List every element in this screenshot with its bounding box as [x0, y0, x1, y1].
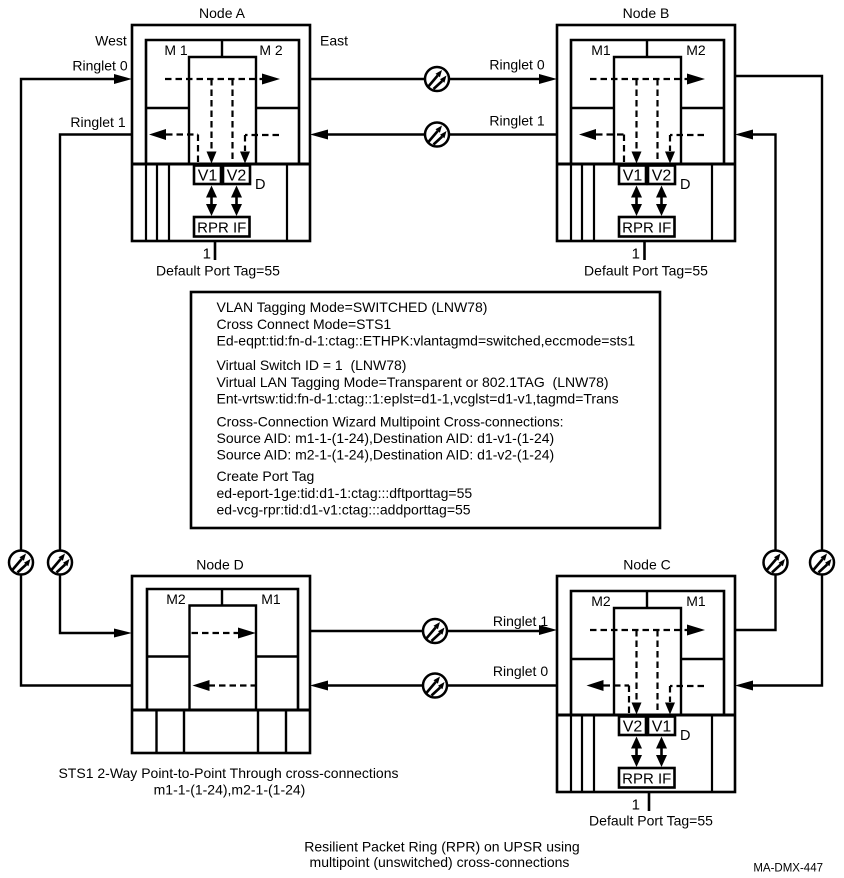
- svg-text:D: D: [680, 177, 690, 193]
- node D outer frame: [132, 576, 310, 753]
- arrowhead Ringlet 1 into node D west: [114, 629, 132, 638]
- node C shelf slot lines: [571, 715, 712, 792]
- node A add dashed riser from V2 to top ringlet: [231, 79, 233, 164]
- node B port 1 tick: [643, 241, 646, 260]
- fiber link symbol (right outer, Ringlet 0 B-to-C): [810, 551, 834, 575]
- node D central switch-fabric rect: [190, 606, 257, 711]
- svg-text:Node C: Node C: [623, 557, 670, 573]
- node C central switch-fabric rect: [614, 608, 681, 715]
- fiber link symbol (left outer, Ringlet 0 D-to-A): [9, 551, 33, 575]
- svg-text:West: West: [95, 33, 127, 49]
- svg-text:M2: M2: [591, 593, 611, 609]
- node C drop arrowhead into V2: [632, 703, 642, 715]
- svg-text:MA-DMX-447: MA-DMX-447: [753, 863, 823, 875]
- svg-text:RPR IF: RPR IF: [622, 220, 671, 237]
- svg-text:Ringlet 1: Ringlet 1: [489, 113, 544, 129]
- svg-text:Default Port Tag=55: Default Port Tag=55: [589, 813, 713, 829]
- fiber link symbol (right inner, Ringlet 1 C-to-B): [764, 551, 788, 575]
- svg-text:Cross Connect Mode=STS1: Cross Connect Mode=STS1: [217, 316, 392, 332]
- svg-text:Ringlet 0: Ringlet 0: [72, 58, 127, 74]
- wire Ringlet 1: node B west to node A east: [328, 133, 557, 135]
- node B add dashed riser from V2 to top ringlet: [656, 79, 658, 164]
- node C VCG box V2: [619, 717, 646, 736]
- svg-text:M1: M1: [591, 42, 611, 58]
- fiber link symbol (bottom, Ringlet 0 C-to-D): [423, 674, 447, 698]
- svg-text:M 2: M 2: [259, 42, 283, 58]
- node C bidirectional arrow 1 between VCG and RPR IF: [631, 737, 642, 768]
- svg-text:Default Port Tag=55: Default Port Tag=55: [584, 263, 708, 279]
- node C inner frame (M2/M1 modules): [571, 591, 724, 715]
- svg-text:V2: V2: [623, 719, 643, 736]
- arrowhead Ringlet 1 into node B east: [735, 130, 753, 140]
- node B left mid line: [571, 107, 614, 109]
- svg-text:V2: V2: [652, 168, 672, 185]
- node B module divider tick: [646, 40, 648, 57]
- node D pass-through dashed arrow east-to-west (Ringlet 0): [209, 684, 257, 686]
- node B ringlet pass-through dashed line (top, west to east): [590, 78, 687, 80]
- svg-text:multipoint (unswitched) cross-: multipoint (unswitched) cross-connection…: [310, 854, 570, 870]
- node C bidirectional arrow 2 between VCG and RPR IF: [656, 737, 667, 768]
- node A ringlet pass-through dashed line (top, west to east): [165, 78, 262, 80]
- node B drop arrowhead into V2: [665, 152, 675, 164]
- node B west-out dashed arrowhead (bottom ringlet): [579, 129, 596, 140]
- svg-text:D: D: [255, 177, 265, 193]
- wire Ringlet 0: node D west out, up left side, into node A west: [21, 79, 132, 686]
- svg-text:Virtual LAN Tagging Mode=Trans: Virtual LAN Tagging Mode=Transparent or …: [217, 374, 609, 390]
- node B shelf divider line: [557, 163, 735, 166]
- svg-text:Ed-eqpt:tid:fn-d-1:ctag::ETHPK: Ed-eqpt:tid:fn-d-1:ctag::ETHPK:vlantagmd…: [217, 333, 636, 349]
- node B drop arrowhead into V1: [632, 152, 642, 164]
- node B east-in dashed line (bottom ringlet): [670, 135, 704, 151]
- node A module divider tick: [221, 40, 223, 57]
- svg-text:D: D: [680, 728, 690, 744]
- node A west-out dashed line from V1 riser: [166, 135, 198, 165]
- wire Ringlet 1: node C east, up right side, into node B east: [735, 135, 776, 631]
- svg-text:M1: M1: [686, 593, 706, 609]
- svg-text:Default Port Tag=55: Default Port Tag=55: [156, 263, 280, 279]
- node B outer frame: [557, 25, 735, 241]
- svg-text:Create Port Tag: Create Port Tag: [217, 468, 315, 484]
- node A shelf divider line: [132, 163, 310, 166]
- arrowhead Ringlet 1 into node A east: [310, 130, 328, 140]
- node B VCG box V2: [648, 166, 675, 185]
- svg-text:V1: V1: [623, 168, 643, 185]
- svg-text:Cross-Connection Wizard Multip: Cross-Connection Wizard Multipoint Cross…: [217, 414, 564, 430]
- arrowhead Ringlet 0 into node A west: [114, 74, 132, 84]
- node C east-out dashed arrowhead: [687, 625, 705, 636]
- svg-text:V1: V1: [198, 168, 218, 185]
- node D left mid line: [147, 655, 190, 657]
- wire Ringlet 0: node C west to node D east: [328, 684, 557, 686]
- svg-text:East: East: [320, 33, 348, 49]
- arrowhead Ringlet 0 into node D east: [310, 681, 328, 691]
- fiber link symbol (top, Ringlet 1 B-to-A): [425, 123, 449, 147]
- svg-text:V2: V2: [227, 168, 247, 185]
- svg-text:Ringlet 1: Ringlet 1: [493, 613, 548, 629]
- node B west-out dashed line from V1 riser: [596, 135, 624, 165]
- node B drop dashed line into V1: [635, 79, 637, 151]
- node B right mid line: [681, 107, 724, 109]
- node C east-in dashed line (bottom ringlet): [670, 686, 704, 702]
- svg-text:Ent-vrtsw:tid:fn-d-1:ctag::1:e: Ent-vrtsw:tid:fn-d-1:ctag::1:eplst=d1-1,…: [217, 390, 619, 406]
- node B east-out dashed arrowhead: [687, 74, 705, 85]
- svg-text:Ringlet 1: Ringlet 1: [70, 114, 125, 130]
- svg-text:Virtual Switch ID = 1 (LNW78): Virtual Switch ID = 1 (LNW78): [217, 357, 407, 373]
- wire Ringlet 0: node A east to node B west: [310, 78, 539, 80]
- svg-text:RPR IF: RPR IF: [197, 220, 246, 237]
- node B central switch-fabric rect: [614, 57, 681, 164]
- node A inner frame (M 1/M 2 modules): [146, 40, 299, 164]
- provisioning commands text box: [191, 292, 660, 528]
- node C port 1 tick: [648, 792, 651, 811]
- svg-text:Ringlet 0: Ringlet 0: [489, 57, 544, 73]
- node B bidirectional arrow 1 between VCG and RPR IF: [631, 186, 642, 217]
- arrowhead Ringlet 0 into node B west: [539, 74, 557, 84]
- node D pass-through dashed arrow west-to-east (Ringlet 1): [192, 632, 239, 634]
- node A RPR IF box: [194, 217, 250, 237]
- node B RPR IF box: [619, 217, 675, 237]
- node D shelf slot lines: [157, 710, 287, 753]
- svg-text:1: 1: [632, 797, 640, 814]
- svg-text:Ringlet 0: Ringlet 0: [493, 663, 548, 679]
- wire Ringlet 1: node D east to node C west: [310, 630, 539, 632]
- svg-text:Resilient Packet Ring (RPR) on: Resilient Packet Ring (RPR) on UPSR usin…: [304, 839, 579, 855]
- svg-text:1: 1: [203, 246, 211, 263]
- node C RPR IF box: [619, 768, 675, 788]
- svg-text:Source AID: m2-1-(1-24),Destin: Source AID: m2-1-(1-24),Destination AID:…: [217, 447, 555, 463]
- node A port 1 tick: [214, 241, 217, 260]
- node A east-out dashed arrowhead: [262, 74, 280, 85]
- node D inner frame (M2/M1 modules): [147, 589, 298, 710]
- node A left mid line: [146, 107, 189, 109]
- svg-text:M1: M1: [261, 591, 281, 607]
- node A outer frame: [132, 25, 310, 241]
- node C west-out dashed arrowhead (bottom ringlet): [587, 680, 604, 691]
- node A east-in dashed line (bottom ringlet): [245, 135, 279, 151]
- svg-text:STS1 2-Way Point-to-Point Thro: STS1 2-Way Point-to-Point Through cross-…: [58, 765, 398, 781]
- fiber link symbol (bottom, Ringlet 1 D-to-C): [423, 619, 447, 643]
- svg-text:Node A: Node A: [199, 5, 246, 21]
- svg-text:m1-1-(1-24),m2-1-(1-24): m1-1-(1-24),m2-1-(1-24): [154, 782, 306, 798]
- node C left mid line: [571, 658, 614, 660]
- node C add dashed riser from V1 to top ringlet: [656, 630, 658, 715]
- svg-text:Node B: Node B: [623, 5, 670, 21]
- svg-text:VLAN Tagging Mode=SWITCHED (LN: VLAN Tagging Mode=SWITCHED (LNW78): [217, 299, 488, 315]
- node A drop arrowhead into V1: [207, 152, 217, 164]
- node D right mid line: [256, 655, 298, 657]
- node A central switch-fabric rect: [189, 57, 256, 164]
- svg-text:ed-eport-1ge:tid:d1-1:ctag:::d: ed-eport-1ge:tid:d1-1:ctag:::dftporttag=…: [217, 485, 473, 501]
- node B bidirectional arrow 2 between VCG and RPR IF: [656, 186, 667, 217]
- fiber link symbol (left inner, Ringlet 1 A-to-D): [48, 551, 72, 575]
- node C west-out dashed line from V2 riser: [604, 686, 630, 716]
- svg-text:V1: V1: [652, 719, 672, 736]
- node A VCG box V1: [194, 166, 221, 185]
- node C VCG box V1: [648, 717, 675, 736]
- node C outer frame: [557, 576, 735, 792]
- node A bidirectional arrow 2 between VCG and RPR IF: [231, 186, 242, 217]
- node A west-out dashed arrowhead (bottom ringlet): [149, 129, 166, 140]
- node A drop dashed line into V1: [210, 79, 212, 151]
- node A right mid line: [256, 107, 299, 109]
- node B shelf slot lines: [571, 164, 712, 241]
- svg-text:1: 1: [632, 246, 640, 263]
- fiber link symbol (top, Ringlet 0 A-to-B): [425, 67, 449, 91]
- node C shelf divider line: [557, 714, 735, 717]
- arrowhead Ringlet 1 into node C west: [539, 625, 557, 635]
- provisioning command text lines: [217, 299, 636, 518]
- node B VCG box V1: [619, 166, 646, 185]
- node C module divider tick: [646, 591, 648, 608]
- svg-text:ed-vcg-rpr:tid:d1-v1:ctag:::ad: ed-vcg-rpr:tid:d1-v1:ctag:::addporttag=5…: [217, 502, 471, 518]
- node A bidirectional arrow 1 between VCG and RPR IF: [206, 186, 217, 217]
- node D shelf divider line: [132, 709, 310, 712]
- node C drop arrowhead into V1: [665, 703, 675, 715]
- svg-text:M 1: M 1: [164, 42, 188, 58]
- node B inner frame (M1/M2 modules): [571, 40, 724, 164]
- wire Ringlet 0: node B east, down right side, into node C east: [735, 76, 822, 686]
- node A shelf slot lines: [146, 164, 287, 241]
- arrowhead Ringlet 0 into node C east: [735, 681, 753, 691]
- node C drop dashed line into V2: [635, 630, 637, 702]
- wire Ringlet 1: node A west out, down to node D west: [60, 135, 132, 634]
- svg-text:Node D: Node D: [196, 557, 243, 573]
- node D module divider tick: [221, 589, 223, 606]
- node C ringlet pass-through dashed line (top, west to east): [590, 629, 687, 631]
- node C right mid line: [681, 658, 724, 660]
- svg-text:M2: M2: [686, 42, 706, 58]
- node A VCG box V2: [223, 166, 250, 185]
- svg-text:RPR IF: RPR IF: [622, 771, 671, 788]
- svg-text:M2: M2: [166, 591, 186, 607]
- node A drop arrowhead into V2: [240, 152, 250, 164]
- svg-text:Source AID: m1-1-(1-24),Destin: Source AID: m1-1-(1-24),Destination AID:…: [217, 430, 555, 446]
